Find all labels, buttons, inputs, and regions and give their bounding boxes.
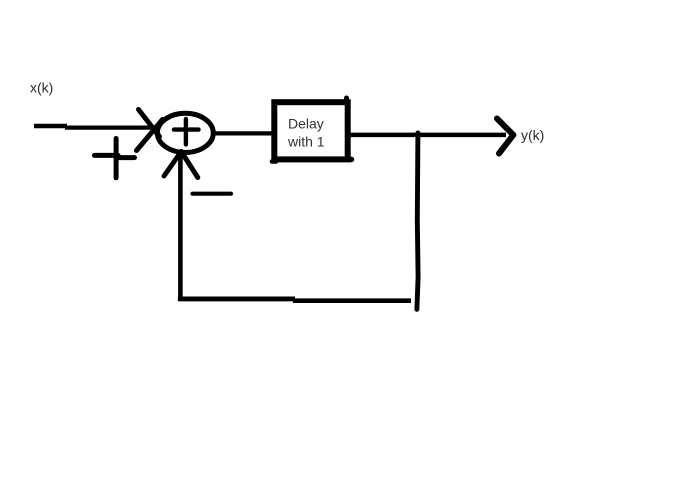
delay block label "Delay with 1" — [287, 115, 325, 149]
wire summer to delay block — [213, 131, 272, 135]
wire feedback tap vertical down — [417, 133, 418, 309]
svg-text:Delay: Delay — [288, 115, 324, 131]
node x(k) input label — [30, 80, 53, 96]
wire feedback bottom horizontal — [178, 299, 411, 301]
input arrowhead into summer — [137, 110, 163, 151]
summing junction circle — [157, 113, 213, 152]
plus inside summer — [174, 119, 199, 145]
svg-text:with 1: with 1 — [287, 134, 325, 150]
node y(k) output label — [521, 127, 544, 143]
feedback arrowhead into summer bottom — [164, 152, 198, 178]
wire input line to summer — [34, 126, 152, 128]
plus sign (input polarity) — [95, 139, 135, 178]
svg-text:y(k): y(k) — [521, 127, 544, 143]
output arrowhead — [497, 119, 513, 154]
wire delay block output line — [350, 133, 506, 138]
minus sign (feedback polarity) — [193, 192, 232, 196]
svg-text:x(k): x(k) — [30, 80, 53, 96]
delay block rectangle — [272, 98, 352, 162]
wire feedback left vertical up to summer — [178, 154, 183, 301]
